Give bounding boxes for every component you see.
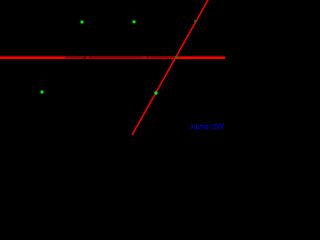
scatter plot canvas bbox=[0, 0, 225, 135]
horizontal fit line (bright red, full width) bbox=[0, 56, 225, 59]
brighter dash on line bbox=[149, 57, 151, 59]
medium dash on line bbox=[86, 57, 90, 59]
dark gap on line bbox=[90, 56, 91, 58]
brighter dash on dark segment bbox=[64, 57, 66, 59]
green data point B bbox=[132, 20, 135, 23]
green data point C bbox=[40, 90, 43, 93]
dark green marker on diagonal bbox=[194, 20, 196, 23]
dark gap on line bbox=[84, 56, 86, 58]
dark green marker under line at crossing bbox=[175, 56, 177, 58]
green data point D on diagonal bbox=[154, 91, 157, 94]
pixel gap on line bbox=[148, 56, 149, 58]
svg-text:X μma / ZW: X μma / ZW bbox=[189, 124, 225, 131]
dense data segment (dark red) on horizontal line bbox=[64, 56, 176, 58]
diagonal data line (bright red) bbox=[132, 0, 209, 136]
green data point A bbox=[80, 20, 83, 23]
brighter dash on line bbox=[142, 57, 148, 59]
